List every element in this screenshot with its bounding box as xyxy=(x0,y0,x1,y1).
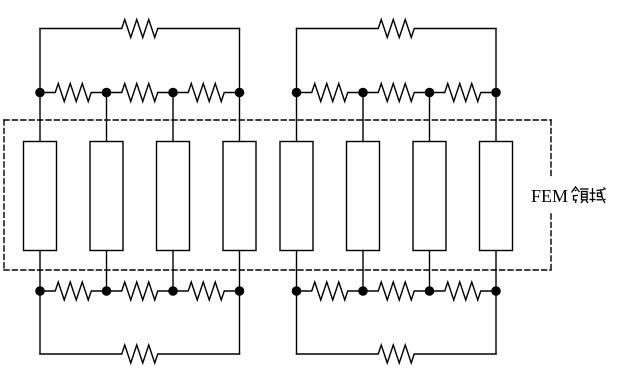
node: group B bottom junction dot 3 xyxy=(425,286,435,296)
wire: group A bottom-loop right vertical xyxy=(239,291,241,354)
wire: group A top-loop left vertical xyxy=(39,29,41,93)
FEM region dashed boundary: right edge upper segment xyxy=(550,120,552,176)
FEM region dashed boundary: left edge xyxy=(3,120,5,270)
node: group B top junction dot 4 xyxy=(491,88,501,98)
resistor R14 (group B bottom row, between node 2 and node 3) xyxy=(363,282,430,300)
resistor R9 (group B top series resistor) xyxy=(297,20,497,38)
wire: group A element 3 bottom down to bottom dot xyxy=(172,251,174,292)
wire: group B bottom-loop left vertical xyxy=(296,291,298,354)
wire: group A node 1 top dot down to element top xyxy=(39,93,41,142)
wire: group A element 2 bottom down to bottom dot xyxy=(106,251,108,292)
resistor (FEM element) body A2 xyxy=(90,142,123,251)
resistor R13 (group B bottom row, between node 1 and node 2) xyxy=(297,282,364,300)
resistor R12 (group B top row, between node 3 and node 4) xyxy=(430,84,497,102)
net/region label: FEM 領域 xyxy=(531,186,606,206)
wire: group A top-loop right vertical xyxy=(239,29,241,93)
wire: group B node 4 top dot down to element top xyxy=(495,93,497,142)
node: group A bottom junction dot 1 xyxy=(35,286,45,296)
wire: group B node 2 top dot down to element top xyxy=(362,93,364,142)
resistor (FEM element) body B4 xyxy=(480,142,513,251)
node: group A top junction dot 4 xyxy=(235,88,245,98)
wire: group A bottom-loop left vertical xyxy=(39,291,41,354)
node: group A bottom junction dot 2 xyxy=(102,286,112,296)
node: group A bottom junction dot 4 xyxy=(235,286,245,296)
resistor (FEM element) body A3 xyxy=(157,142,190,251)
resistor R4 (group A top row, between node 3 and node 4) xyxy=(173,84,240,102)
node: group A bottom junction dot 3 xyxy=(168,286,178,296)
node: group B top junction dot 2 xyxy=(358,88,368,98)
wire: group A node 2 top dot down to element top xyxy=(106,93,108,142)
wire: group B element 3 bottom down to bottom dot xyxy=(429,251,431,292)
resistor (FEM element) body A1 xyxy=(24,142,57,251)
wire: group B element 2 bottom down to bottom dot xyxy=(362,251,364,292)
resistor (FEM element) body B1 xyxy=(280,142,313,251)
svg-text:FEM: FEM xyxy=(531,186,568,206)
resistor R10 (group B top row, between node 1 and node 2) xyxy=(297,84,364,102)
node: group A top junction dot 2 xyxy=(102,88,112,98)
FEM region dashed boundary: bottom edge xyxy=(4,269,551,271)
FEM region dashed boundary: right edge lower segment xyxy=(550,214,552,270)
wire: group B bottom-loop right vertical xyxy=(495,291,497,354)
wire: group B node 1 top dot down to element top xyxy=(296,93,298,142)
resistor R15 (group B bottom row, between node 3 and node 4) xyxy=(430,282,497,300)
node: group B bottom junction dot 1 xyxy=(292,286,302,296)
resistor R7 (group A bottom row, between node 3 and node 4) xyxy=(173,282,240,300)
resistor R1 (group A top series resistor) xyxy=(40,20,240,38)
resistor R16 (group B bottom series resistor) xyxy=(297,345,497,363)
wire: group B node 3 top dot down to element top xyxy=(429,93,431,142)
wire: group B top-loop right vertical xyxy=(495,29,497,93)
resistor R5 (group A bottom row, between node 1 and node 2) xyxy=(40,282,107,300)
resistor R6 (group A bottom row, between node 2 and node 3) xyxy=(107,282,174,300)
wire: group A node 3 top dot down to element top xyxy=(172,93,174,142)
wire: group A element 4 bottom down to bottom dot xyxy=(239,251,241,292)
wire: group A node 4 top dot down to element top xyxy=(239,93,241,142)
FEM region dashed boundary: top edge xyxy=(4,119,551,121)
resistor R11 (group B top row, between node 2 and node 3) xyxy=(363,84,430,102)
wire: group B top-loop left vertical xyxy=(296,29,298,93)
resistor (FEM element) body A4 xyxy=(223,142,256,251)
wire: group B element 1 bottom down to bottom dot xyxy=(296,251,298,292)
node: group B bottom junction dot 2 xyxy=(358,286,368,296)
node: group B top junction dot 1 xyxy=(292,88,302,98)
resistor (FEM element) body B2 xyxy=(347,142,380,251)
node: group B top junction dot 3 xyxy=(425,88,435,98)
wire: group B element 4 bottom down to bottom dot xyxy=(495,251,497,292)
node: group B bottom junction dot 4 xyxy=(491,286,501,296)
resistor R2 (group A top row, between node 1 and node 2) xyxy=(40,84,107,102)
resistor R8 (group A bottom series resistor) xyxy=(40,345,240,363)
node: group A top junction dot 1 xyxy=(35,88,45,98)
node: group A top junction dot 3 xyxy=(168,88,178,98)
resistor (FEM element) body B3 xyxy=(413,142,446,251)
resistor R3 (group A top row, between node 2 and node 3) xyxy=(107,84,174,102)
wire: group A element 1 bottom down to bottom dot xyxy=(39,251,41,292)
